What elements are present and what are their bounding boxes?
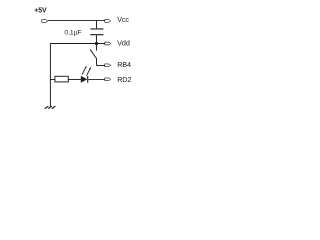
wire Vdd rail bbox=[50, 43, 105, 45]
junction node bbox=[95, 42, 98, 45]
pin Vdd bbox=[105, 42, 112, 45]
wire RD2 bbox=[88, 78, 105, 80]
svg-text:0,1µF: 0,1µF bbox=[64, 29, 81, 36]
ground bbox=[45, 106, 56, 109]
wire cap top bbox=[96, 21, 98, 29]
pin RD2 bbox=[105, 78, 112, 81]
wire resistor to LED bbox=[69, 78, 81, 80]
switch S1 bbox=[96, 44, 98, 51]
svg-text:RD2: RD2 bbox=[117, 75, 131, 84]
pin Vcc bbox=[105, 19, 112, 22]
wire Vcc rail bbox=[48, 20, 105, 22]
capacitor value 0,1uF bbox=[64, 29, 81, 36]
svg-text:Vcc: Vcc bbox=[117, 15, 129, 24]
LED D1 bbox=[81, 76, 87, 83]
resistor R1 bbox=[55, 76, 68, 82]
wire cap bottom bbox=[96, 35, 98, 43]
svg-text:RB4: RB4 bbox=[117, 60, 131, 69]
wire RB4 bbox=[97, 65, 105, 67]
svg-text:+5V: +5V bbox=[34, 7, 47, 14]
svg-text:Vdd: Vdd bbox=[117, 39, 130, 48]
wire left rail bbox=[49, 43, 51, 106]
pin RB4 bbox=[105, 64, 112, 67]
power +5V label bbox=[34, 7, 47, 14]
wire resistor stub bbox=[50, 78, 55, 80]
capacitor C1 plates bbox=[90, 28, 103, 30]
power tab +5V bbox=[42, 19, 49, 22]
